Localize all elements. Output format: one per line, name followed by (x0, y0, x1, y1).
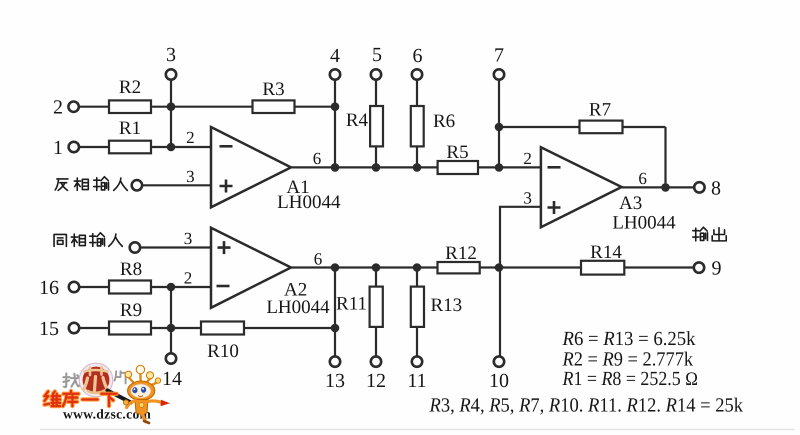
svg-text:R5: R5 (446, 142, 468, 163)
svg-text:6: 6 (638, 169, 647, 188)
svg-text:R7: R7 (589, 100, 611, 121)
svg-text:R6 = R13 = 6.25k: R6 = R13 = 6.25k (562, 328, 696, 350)
svg-text:LH0044: LH0044 (266, 297, 330, 318)
svg-text:2: 2 (523, 149, 532, 168)
svg-text:A3: A3 (619, 193, 642, 214)
svg-text:3: 3 (186, 167, 195, 186)
svg-text:14: 14 (162, 368, 182, 390)
svg-text:3: 3 (523, 189, 532, 208)
svg-text:13: 13 (325, 370, 345, 392)
svg-text:LH0044: LH0044 (612, 213, 676, 234)
svg-text:5: 5 (372, 44, 382, 66)
svg-text:R4: R4 (346, 110, 369, 131)
svg-text:6: 6 (413, 45, 423, 67)
svg-text:8: 8 (711, 178, 721, 200)
svg-text:1: 1 (53, 137, 63, 159)
svg-text:R12: R12 (445, 243, 477, 264)
svg-text:R1 = R8 = 252.5 Ω: R1 = R8 = 252.5 Ω (562, 368, 698, 390)
svg-text:R8: R8 (120, 259, 142, 280)
svg-text:R11: R11 (336, 294, 367, 315)
svg-text:6: 6 (314, 250, 323, 269)
svg-text:R2: R2 (119, 77, 141, 98)
svg-text:LH0044: LH0044 (277, 192, 341, 213)
svg-text:7: 7 (494, 45, 504, 67)
svg-text:9: 9 (712, 258, 722, 280)
svg-text:4: 4 (330, 45, 340, 67)
svg-text:R1: R1 (119, 118, 141, 139)
svg-text:R9: R9 (120, 300, 142, 321)
svg-text:15: 15 (39, 318, 59, 340)
svg-text:10: 10 (489, 370, 509, 392)
svg-text:2: 2 (184, 269, 193, 288)
svg-text:11: 11 (407, 370, 426, 392)
svg-text:R3: R3 (262, 79, 284, 100)
svg-text:R10: R10 (207, 341, 239, 362)
svg-text:3: 3 (184, 229, 193, 248)
svg-text:6: 6 (313, 149, 322, 168)
svg-text:R14: R14 (590, 242, 622, 263)
svg-text:R13: R13 (431, 295, 463, 316)
svg-text:2: 2 (53, 97, 63, 119)
svg-text:R6: R6 (433, 111, 455, 132)
svg-text:16: 16 (39, 277, 59, 299)
svg-text:R3, R4, R5, R7, R10. R11. R12.: R3, R4, R5, R7, R10. R11. R12. R14 = 25k (429, 395, 743, 417)
svg-text:2: 2 (186, 128, 195, 147)
svg-text:3: 3 (166, 44, 176, 66)
svg-text:12: 12 (366, 370, 386, 392)
